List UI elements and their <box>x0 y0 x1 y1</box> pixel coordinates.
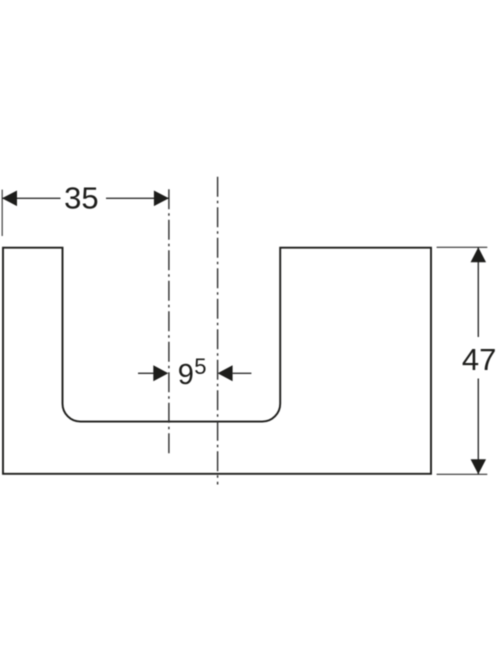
dimension 47: bottom arrowhead <box>471 459 487 474</box>
svg-text:5: 5 <box>194 354 206 379</box>
dimension 47: bottom extension line <box>437 473 488 475</box>
dimension 9.5: right arrowhead <box>218 365 233 381</box>
dimension 35: left arrowhead <box>2 191 17 207</box>
dimension 35: right arrowhead <box>154 191 169 207</box>
svg-text:9: 9 <box>178 359 194 391</box>
dimension 47: top arrowhead <box>471 247 487 262</box>
dimension 35: extension line <box>1 190 3 236</box>
center line B (part axis) <box>217 177 219 485</box>
center line A (slot axis) <box>168 189 170 455</box>
dimension 47: top extension line <box>437 246 488 248</box>
dimension 9.5: left arrowhead <box>153 365 168 381</box>
dimension 9.5: right tail line <box>233 372 252 374</box>
svg-text:35: 35 <box>64 180 98 215</box>
dimension 35: dimension line right segment <box>106 197 169 199</box>
dimension 47: dimension line lower segment <box>477 379 479 475</box>
dimension 9.5: left tail line <box>138 372 154 374</box>
svg-text:47: 47 <box>462 342 496 377</box>
dimension 35: dimension line left segment <box>2 197 61 199</box>
dimension 47: dimension line upper segment <box>477 247 479 337</box>
part outline (U-profile) <box>3 248 431 474</box>
